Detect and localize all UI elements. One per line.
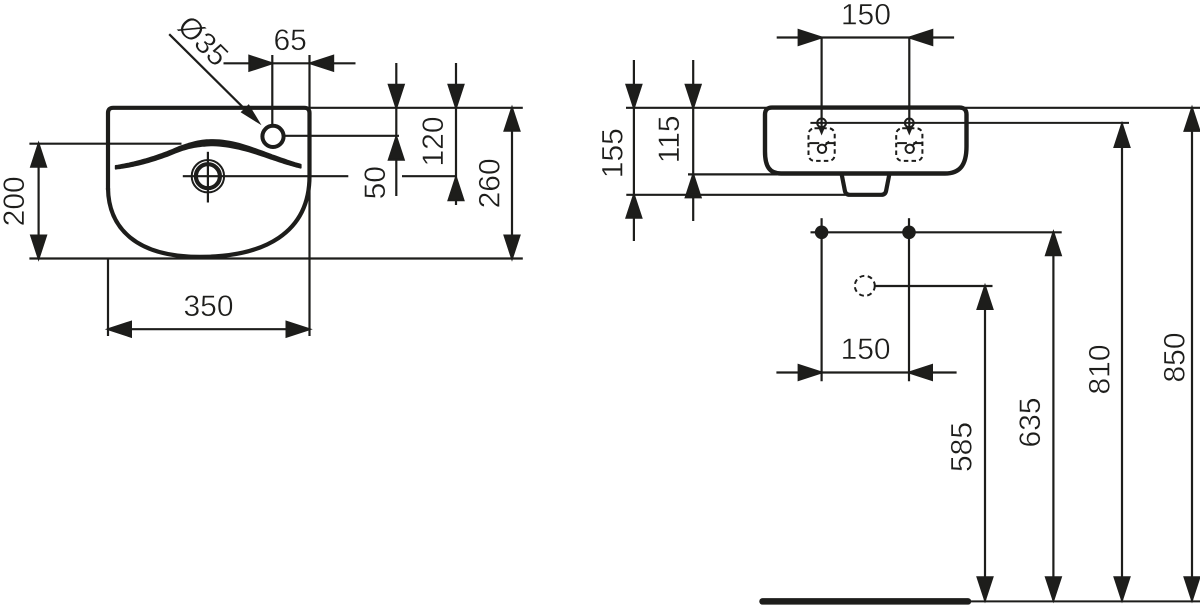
bolt box right bbox=[896, 128, 922, 161]
dashed circle outlet bbox=[855, 276, 875, 296]
dim 150 top line bbox=[777, 36, 954, 38]
drain crosshair vertical bbox=[207, 152, 209, 203]
dim 115 arrows bbox=[686, 85, 701, 108]
dim 260 line bbox=[511, 108, 513, 259]
dim 155 arrows bbox=[626, 85, 641, 108]
svg-text:585: 585 bbox=[946, 422, 979, 472]
svg-text:155: 155 bbox=[597, 128, 630, 178]
dim 65 arrows bbox=[249, 56, 272, 71]
dim 635 line bbox=[1052, 232, 1054, 600]
bolt circle left bbox=[817, 119, 826, 128]
dim 350 line bbox=[108, 328, 310, 330]
dim 850 line bbox=[1191, 108, 1193, 600]
dim 350 arrows bbox=[108, 322, 131, 337]
basin inner wave bbox=[116, 140, 301, 169]
wall dot left bbox=[815, 226, 829, 240]
basin bowl bbox=[108, 176, 310, 257]
dot stub left bbox=[820, 218, 822, 232]
dot drop line left bbox=[820, 232, 822, 381]
dim 65 ext line tap bbox=[271, 55, 273, 126]
drain center line bbox=[183, 175, 348, 177]
dim 150 lower line bbox=[776, 371, 956, 373]
dim 350 ext left bbox=[107, 260, 109, 337]
200 reference line bbox=[29, 143, 181, 145]
bolt sigma tail right bbox=[913, 141, 917, 145]
svg-text:200: 200 bbox=[0, 176, 31, 226]
top edge extension line bbox=[310, 107, 523, 109]
tap center line bbox=[285, 135, 399, 137]
svg-text:260: 260 bbox=[474, 158, 507, 208]
dim 150 top arrows bbox=[799, 30, 822, 45]
drain trapezoid bbox=[842, 174, 890, 195]
dim 200 arrows bbox=[31, 144, 46, 167]
bolt dash mid right b bbox=[913, 142, 922, 144]
dim 810 arrows bbox=[1115, 124, 1130, 147]
floor thick bar bbox=[763, 598, 969, 605]
bolt sigma right bbox=[906, 145, 914, 153]
dots line bbox=[811, 231, 1062, 233]
fixing hole line right bbox=[908, 38, 910, 129]
bottom reference line bbox=[29, 257, 522, 259]
dim 65 line bbox=[224, 62, 356, 64]
dim 65 ext line right bbox=[308, 55, 310, 108]
dim 350 ext right bbox=[308, 178, 310, 336]
svg-text:50: 50 bbox=[359, 166, 392, 199]
svg-text:635: 635 bbox=[1014, 397, 1047, 447]
dot stub right bbox=[908, 218, 910, 232]
basin outline bbox=[108, 108, 310, 190]
top reference line bbox=[626, 107, 1200, 109]
bolt dash mid left bbox=[809, 142, 819, 144]
bolt sigma tail left bbox=[825, 141, 829, 145]
fixing hole line left bbox=[820, 38, 822, 129]
dim 50 line bbox=[395, 63, 397, 196]
dim 115 line bbox=[692, 60, 694, 221]
810 reference line bbox=[810, 122, 1129, 124]
dim 150 lower arrows bbox=[799, 365, 822, 380]
dot drop line right bbox=[908, 232, 910, 381]
leader arrowhead bbox=[241, 104, 262, 125]
svg-text:350: 350 bbox=[183, 290, 233, 323]
dim 155 line bbox=[633, 60, 635, 241]
dim 120 line bbox=[455, 63, 457, 205]
drain line right segment bbox=[402, 175, 456, 177]
outlet line bbox=[874, 285, 992, 287]
dim 120 arrows bbox=[449, 85, 464, 108]
dim 585 line bbox=[984, 286, 986, 600]
wall dot right bbox=[902, 226, 916, 240]
basin front outline bbox=[765, 108, 967, 174]
bolt box left bbox=[809, 128, 835, 161]
dim 850 arrows bbox=[1185, 108, 1200, 131]
drain outer circle bbox=[192, 160, 224, 192]
leader line Ø35 bbox=[169, 34, 257, 121]
svg-text:150: 150 bbox=[841, 333, 891, 366]
fixing hole arrow left bbox=[818, 127, 825, 136]
svg-text:150: 150 bbox=[841, 0, 891, 31]
floor thin line bbox=[968, 600, 1200, 602]
bolt sigma left bbox=[818, 145, 826, 153]
dim 50 arrows bbox=[389, 85, 404, 108]
fixing hole arrow right bbox=[906, 127, 913, 136]
155 reference line bbox=[626, 194, 845, 196]
dim 635 arrows bbox=[1046, 232, 1061, 255]
dim 810 line bbox=[1121, 124, 1123, 600]
svg-text:115: 115 bbox=[653, 115, 686, 163]
bolt dash mid left b bbox=[826, 142, 835, 144]
svg-text:850: 850 bbox=[1159, 332, 1192, 382]
115 reference line bbox=[688, 173, 777, 175]
bolt dash mid right bbox=[897, 142, 907, 144]
dim 260 arrows bbox=[505, 108, 520, 131]
bolt circle right bbox=[905, 119, 914, 128]
drain inner circle bbox=[196, 164, 220, 188]
svg-text:120: 120 bbox=[417, 116, 450, 166]
dim 585 arrows bbox=[978, 286, 993, 309]
tap hole bbox=[262, 126, 283, 147]
svg-text:65: 65 bbox=[274, 24, 307, 57]
svg-text:810: 810 bbox=[1084, 344, 1117, 394]
dim 200 line bbox=[37, 144, 39, 259]
